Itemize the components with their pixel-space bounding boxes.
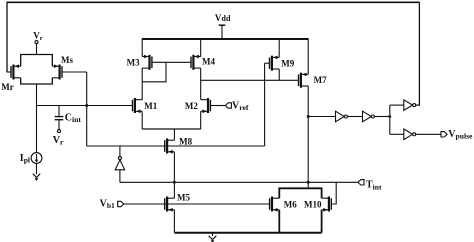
junction node T / M7 drain vertical bbox=[307, 181, 310, 184]
terminal Vpulse bbox=[441, 132, 447, 137]
transistor Ms bbox=[52, 64, 62, 79]
wire ground rail stub down bbox=[212, 233, 214, 236]
wire Vdd corner down to M7 source bbox=[307, 38, 309, 74]
svg-text:M2: M2 bbox=[185, 101, 198, 111]
wire U2 output to branch point bbox=[374, 116, 389, 118]
wire tail rail down to M8 drain bbox=[173, 129, 175, 140]
wire Vdd rail bbox=[142, 38, 308, 40]
junction M7 drain / inverter chain input bbox=[307, 115, 310, 118]
transistor M4 bbox=[191, 55, 201, 70]
transistor M8 bbox=[165, 139, 175, 154]
svg-text:Vpulse: Vpulse bbox=[448, 129, 473, 141]
wire M9 gate jog bbox=[265, 62, 270, 64]
wire M1 source to tail rail bbox=[141, 111, 143, 129]
wire Mr/Ms drain box bottom rail bbox=[21, 78, 53, 84]
label M3 bbox=[127, 58, 140, 68]
svg-text:M5: M5 bbox=[177, 193, 190, 203]
wire Mr/Ms source box top rail bbox=[21, 55, 53, 67]
label M8 bbox=[179, 137, 192, 147]
wire M5 drain up to node T bbox=[173, 182, 175, 198]
transistor M3 bbox=[142, 55, 152, 70]
wire node G down to inverter U5 output bbox=[119, 146, 121, 157]
terminal Tint bbox=[358, 180, 364, 185]
wire Vb1 to M5 and M6 gates bbox=[124, 203, 270, 205]
inverter U2 bbox=[363, 111, 375, 122]
wire Ms gate lead to vertical bbox=[62, 71, 87, 73]
label Vb1 bbox=[100, 199, 115, 211]
label M6 bbox=[284, 200, 297, 210]
wire feedback from inverter U3 output to Mr gate (top edge) bbox=[7, 1, 419, 3]
wire M7 drain node to inverter U1 input bbox=[308, 116, 335, 118]
wire M3 diode connection (gate to drain) bbox=[142, 62, 166, 82]
wire node G (M8 gate net) bbox=[87, 145, 265, 147]
current source Ipl bbox=[31, 153, 42, 164]
transistor Mr bbox=[11, 64, 21, 79]
wire node T rail (to Tint) bbox=[120, 181, 358, 183]
transistor M6 bbox=[270, 197, 280, 212]
terminal Vr (top) bbox=[35, 41, 38, 55]
inverter U4 bbox=[404, 129, 416, 140]
inverter U5 (output bubble up) bbox=[115, 157, 124, 170]
wire integration node rail (node A) bbox=[37, 105, 133, 107]
wire M3-M4 gate line bbox=[152, 61, 191, 63]
wire tail rail bbox=[142, 128, 201, 130]
label M1 bbox=[144, 101, 157, 111]
svg-text:M6: M6 bbox=[284, 200, 297, 210]
wire M5 source down to ground rail bbox=[173, 210, 175, 233]
wire Vdd drop to M3 source bbox=[141, 38, 143, 56]
label Vdd bbox=[215, 13, 231, 23]
terminal Vb1 bbox=[118, 201, 124, 206]
svg-text:Ms: Ms bbox=[61, 55, 73, 65]
label M9 bbox=[281, 59, 294, 69]
junction branch point bbox=[388, 115, 391, 118]
svg-text:M10: M10 bbox=[304, 200, 322, 210]
wire M6 source to ground rail bbox=[278, 210, 280, 233]
wire Ipl to ground bbox=[36, 163, 38, 174]
transistor M1 bbox=[133, 98, 143, 113]
transistor M5 bbox=[165, 197, 175, 212]
svg-text:Cint: Cint bbox=[65, 112, 82, 124]
svg-text:dd: dd bbox=[222, 14, 231, 23]
ground (below Ipl) bbox=[33, 174, 40, 181]
wire branch to U4 input bbox=[390, 133, 404, 135]
svg-text:M1: M1 bbox=[144, 101, 157, 111]
svg-text:M4: M4 bbox=[202, 57, 215, 67]
terminal Vref bbox=[225, 103, 231, 108]
ground (bottom rail) bbox=[209, 236, 217, 242]
wire node Y (M4 drain to M7 gate) bbox=[201, 79, 299, 81]
label M7 bbox=[314, 75, 327, 85]
label Vr (below Cint) bbox=[53, 135, 64, 147]
svg-text:Ipl: Ipl bbox=[20, 153, 30, 165]
svg-text:Vr: Vr bbox=[33, 30, 43, 42]
svg-text:Vr: Vr bbox=[53, 135, 64, 147]
wire Mr gate lead bbox=[7, 71, 12, 73]
wire Vdd drop to M9 source bbox=[278, 38, 280, 57]
wire M8 source down to node T rail bbox=[173, 152, 175, 183]
junction integration rail / Ms-gate vertical bbox=[85, 104, 88, 107]
wire M7 drain down to M6/M10 drains bbox=[307, 86, 309, 188]
svg-text:Tint: Tint bbox=[366, 180, 382, 192]
junction node T / M8-M5 vertical bbox=[173, 181, 176, 184]
wire M6/M10 drain box top rail bbox=[279, 188, 321, 198]
wire integration rail down to Ipl bbox=[36, 106, 38, 153]
label Vr (top) bbox=[33, 30, 43, 42]
wire Vdd drop to M4 source bbox=[200, 38, 202, 56]
wire M4 drain to M2 drain bbox=[200, 68, 202, 100]
label Vpulse bbox=[448, 129, 473, 141]
label M10 bbox=[304, 200, 322, 210]
transistor M9 bbox=[270, 56, 280, 71]
transistor M7 bbox=[299, 73, 309, 88]
terminal Vdd bbox=[219, 25, 226, 39]
wire ground rail bbox=[174, 232, 321, 234]
transistor M2 bbox=[201, 98, 211, 113]
wire Mr/Ms drain node down to integration rail bbox=[36, 84, 38, 106]
label M4 bbox=[202, 57, 215, 67]
svg-text:M9: M9 bbox=[281, 59, 294, 69]
wire M9/M8 gate vertical (crosses node Y) bbox=[264, 63, 266, 146]
wire left feedback vertical to Mr gate bbox=[6, 2, 8, 72]
wire U4 output to Vpulse bbox=[416, 133, 441, 135]
svg-text:Mr: Mr bbox=[1, 82, 14, 92]
wire U1 output to U2 input bbox=[347, 116, 362, 118]
svg-text:Vref: Vref bbox=[232, 101, 249, 113]
inverter U3 bbox=[404, 100, 416, 111]
label M2 bbox=[185, 101, 198, 111]
wire inverter U5 input from node T rail bbox=[119, 170, 121, 183]
label M5 bbox=[177, 193, 190, 203]
wire M9 drain down to node Y bbox=[278, 69, 280, 80]
inverter U1 bbox=[336, 111, 348, 122]
label Cint bbox=[65, 112, 82, 124]
wire M10 gate up to node T bbox=[331, 182, 336, 204]
label Vref bbox=[232, 101, 249, 113]
wire M10 source to ground rail bbox=[321, 210, 323, 233]
terminal Vr (below Cint) bbox=[58, 130, 61, 133]
wire M2 gate lead to Vref bbox=[210, 105, 225, 107]
svg-text:M3: M3 bbox=[127, 58, 140, 68]
label Ms bbox=[61, 55, 73, 65]
svg-text:Vb1: Vb1 bbox=[100, 199, 115, 211]
transistor M10 bbox=[322, 197, 332, 212]
wire M3 drain to M1 drain bbox=[141, 68, 143, 100]
wire vertical Ms gate to M8 gate net bbox=[86, 72, 88, 146]
wire branch to U3 input bbox=[390, 104, 404, 106]
label Mr bbox=[1, 82, 14, 92]
wire U3 output up to top feedback wire bbox=[416, 2, 420, 105]
wire M2 source to tail rail bbox=[200, 111, 202, 129]
wire branch vertical bbox=[389, 105, 391, 134]
svg-text:M7: M7 bbox=[314, 75, 327, 85]
label Tint bbox=[366, 180, 382, 192]
label Ipl bbox=[20, 153, 30, 165]
capacitor Cint bbox=[55, 106, 64, 130]
svg-text:M8: M8 bbox=[179, 137, 192, 147]
